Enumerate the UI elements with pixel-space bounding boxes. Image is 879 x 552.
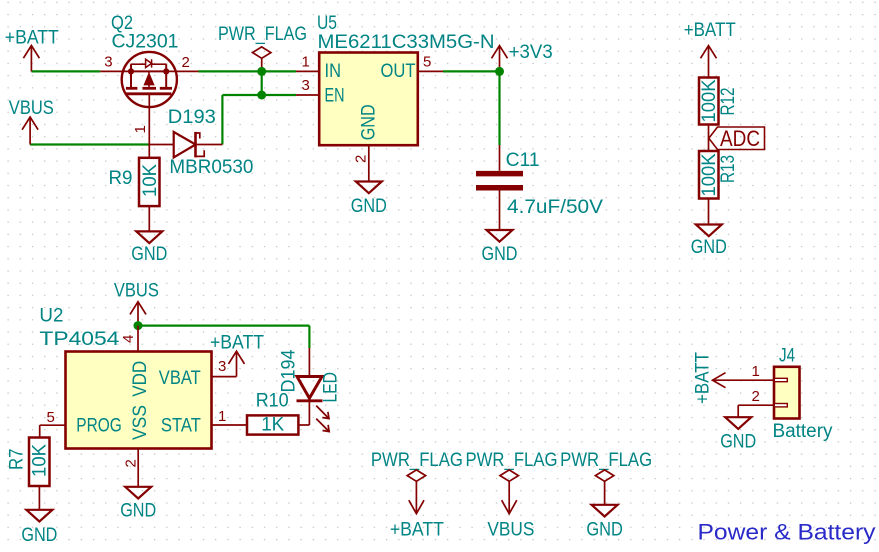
svg-text:3: 3 bbox=[302, 77, 310, 94]
svg-text:1: 1 bbox=[218, 408, 226, 425]
svg-text:GND: GND bbox=[720, 432, 756, 453]
svg-text:R10: R10 bbox=[256, 391, 289, 412]
svg-text:VBUS: VBUS bbox=[9, 98, 54, 119]
svg-text:5: 5 bbox=[423, 54, 431, 71]
svg-text:10K: 10K bbox=[140, 164, 161, 197]
svg-text:GND: GND bbox=[691, 237, 727, 258]
svg-text:VSS: VSS bbox=[130, 405, 151, 440]
svg-text:2: 2 bbox=[353, 155, 370, 163]
svg-text:GND: GND bbox=[131, 244, 167, 265]
svg-text:GND: GND bbox=[358, 104, 379, 140]
svg-text:1K: 1K bbox=[261, 415, 284, 436]
svg-text:GND: GND bbox=[120, 501, 156, 522]
svg-text:EN: EN bbox=[325, 86, 345, 107]
svg-text:Power & Battery: Power & Battery bbox=[698, 520, 876, 545]
svg-text:4.7uF/50V: 4.7uF/50V bbox=[507, 197, 603, 218]
svg-text:Battery: Battery bbox=[773, 421, 833, 442]
svg-text:D194: D194 bbox=[279, 349, 300, 392]
svg-text:U5: U5 bbox=[317, 13, 337, 34]
svg-text:VBAT: VBAT bbox=[159, 368, 201, 389]
svg-text:+BATT: +BATT bbox=[693, 352, 714, 404]
svg-text:C11: C11 bbox=[506, 150, 540, 171]
svg-text:VBUS: VBUS bbox=[487, 520, 534, 541]
svg-text:IN: IN bbox=[325, 61, 342, 82]
svg-text:ADC: ADC bbox=[720, 126, 760, 151]
svg-text:PWR_FLAG: PWR_FLAG bbox=[560, 450, 652, 471]
svg-text:OUT: OUT bbox=[381, 61, 416, 82]
svg-text:R9: R9 bbox=[109, 168, 133, 189]
svg-text:2: 2 bbox=[182, 54, 190, 71]
svg-text:STAT: STAT bbox=[161, 416, 201, 437]
svg-text:R13: R13 bbox=[718, 155, 739, 183]
svg-text:ME6211C33M5G-N: ME6211C33M5G-N bbox=[318, 32, 495, 53]
svg-text:VDD: VDD bbox=[130, 361, 151, 397]
svg-text:100K: 100K bbox=[699, 153, 720, 196]
svg-text:5: 5 bbox=[47, 409, 55, 426]
svg-text:GND: GND bbox=[351, 196, 387, 217]
svg-text:D193: D193 bbox=[168, 107, 216, 128]
svg-text:PWR_FLAG: PWR_FLAG bbox=[466, 450, 558, 471]
svg-text:PWR_FLAG: PWR_FLAG bbox=[218, 24, 307, 45]
svg-text:3: 3 bbox=[104, 54, 112, 71]
svg-text:GND: GND bbox=[482, 244, 518, 265]
svg-text:1: 1 bbox=[132, 125, 149, 133]
svg-text:GND: GND bbox=[21, 525, 57, 546]
svg-text:+BATT: +BATT bbox=[684, 20, 736, 41]
svg-text:4: 4 bbox=[120, 335, 137, 343]
svg-text:+3V3: +3V3 bbox=[509, 42, 553, 63]
svg-text:VBUS: VBUS bbox=[114, 281, 159, 302]
svg-text:LED: LED bbox=[321, 372, 342, 403]
svg-text:1: 1 bbox=[302, 54, 310, 71]
svg-text:2: 2 bbox=[752, 388, 760, 405]
svg-text:PROG: PROG bbox=[76, 416, 122, 437]
svg-text:+BATT: +BATT bbox=[210, 333, 264, 354]
svg-text:2: 2 bbox=[123, 459, 140, 467]
svg-text:100K: 100K bbox=[699, 79, 720, 122]
svg-text:+BATT: +BATT bbox=[390, 520, 444, 541]
svg-text:J4: J4 bbox=[779, 346, 795, 367]
svg-text:MBR0530: MBR0530 bbox=[169, 157, 253, 178]
svg-text:R12: R12 bbox=[718, 88, 739, 116]
svg-text:3: 3 bbox=[218, 358, 226, 375]
svg-text:PWR_FLAG: PWR_FLAG bbox=[371, 450, 463, 471]
svg-text:10K: 10K bbox=[30, 444, 51, 477]
svg-text:U2: U2 bbox=[39, 306, 63, 327]
svg-text:TP4054: TP4054 bbox=[39, 329, 120, 350]
svg-text:GND: GND bbox=[586, 520, 623, 541]
svg-text:R7: R7 bbox=[7, 449, 28, 471]
svg-text:1: 1 bbox=[752, 363, 760, 380]
svg-text:CJ2301: CJ2301 bbox=[112, 32, 179, 53]
